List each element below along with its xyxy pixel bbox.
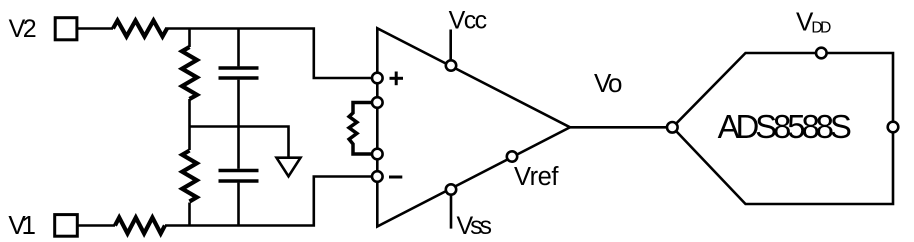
svg-text:V1: V1 bbox=[8, 210, 36, 240]
svg-text:ADS8588S: ADS8588S bbox=[718, 108, 852, 145]
svg-text:Vss: Vss bbox=[457, 212, 493, 240]
svg-text:Vcc: Vcc bbox=[449, 7, 488, 35]
svg-text:Vo: Vo bbox=[594, 68, 623, 98]
svg-text:V2: V2 bbox=[9, 15, 37, 43]
svg-text:Vref: Vref bbox=[514, 163, 559, 191]
